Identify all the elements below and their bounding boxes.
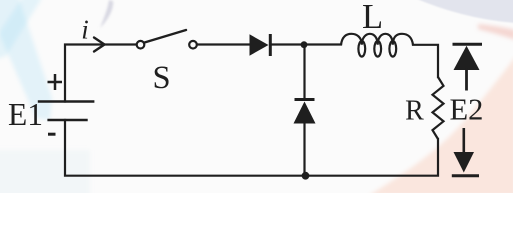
freewheel diode D2 triangle (pointing up): [294, 102, 316, 124]
E2 top arrow head (up): [454, 46, 480, 70]
wire resistor to bottom-right corner: [306, 139, 439, 176]
svg-text:S: S: [152, 60, 170, 96]
battery minus sign: [48, 133, 56, 136]
switch S blade: [145, 30, 187, 43]
current arrow i on top wire: [94, 38, 105, 52]
wire switch to diode: [197, 43, 250, 45]
E2 bottom arrow bar: [452, 174, 479, 177]
wire inductor to top-right corner, down to resistor: [413, 45, 438, 77]
battery E1 top plate (+): [38, 100, 95, 102]
node B junction dot: [302, 172, 310, 180]
svg-text:R: R: [405, 96, 424, 127]
switch S contact circles: [137, 41, 197, 49]
E2 top arrow stem: [465, 68, 468, 91]
diode D1 triangle: [250, 34, 269, 55]
node A junction dot: [301, 41, 308, 48]
svg-text:i: i: [81, 15, 89, 45]
battery plus sign: [48, 74, 63, 90]
E2 bottom arrow head (down): [454, 152, 475, 173]
inductor L coil: [341, 34, 413, 57]
wire freewheel diode branch lower: [303, 123, 305, 176]
svg-text:E1: E1: [8, 97, 43, 132]
wire freewheel diode branch upper: [303, 45, 305, 100]
freewheel diode D2 cathode bar: [295, 98, 315, 101]
wire top-left horizontal (corner to switch): [65, 45, 137, 102]
svg-text:L: L: [362, 0, 383, 36]
E2 top arrow bar: [453, 43, 483, 46]
E2 bottom arrow stem: [462, 128, 465, 155]
battery E1 bottom plate (-): [47, 119, 87, 122]
wire diode to node A: [271, 43, 341, 45]
diode D1 cathode bar: [269, 34, 272, 56]
resistor R zigzag: [433, 77, 444, 139]
svg-text:E2: E2: [450, 93, 484, 127]
wire bottom (node B to battery minus): [65, 120, 306, 176]
